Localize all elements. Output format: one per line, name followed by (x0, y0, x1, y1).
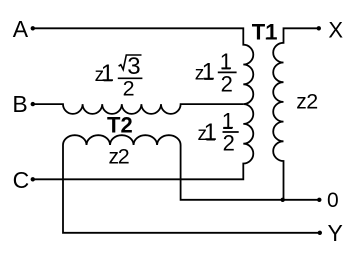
svg-text:2: 2 (118, 145, 130, 169)
svg-text:T2: T2 (107, 112, 133, 137)
svg-text:2: 2 (221, 71, 233, 96)
svg-text:2: 2 (223, 130, 235, 155)
svg-text:1: 1 (220, 49, 232, 74)
svg-text:1: 1 (202, 59, 215, 86)
svg-text:1: 1 (204, 119, 217, 146)
svg-text:0: 0 (327, 189, 339, 212)
svg-text:T1: T1 (252, 20, 278, 45)
svg-text:C: C (13, 167, 30, 193)
svg-text:2: 2 (123, 77, 135, 101)
svg-text:A: A (13, 16, 29, 42)
svg-text:Y: Y (328, 220, 343, 246)
svg-text:B: B (12, 91, 27, 117)
svg-text:1: 1 (101, 60, 114, 87)
svg-text:2: 2 (306, 89, 318, 113)
svg-text:X: X (328, 18, 343, 43)
svg-text:z: z (296, 90, 307, 113)
